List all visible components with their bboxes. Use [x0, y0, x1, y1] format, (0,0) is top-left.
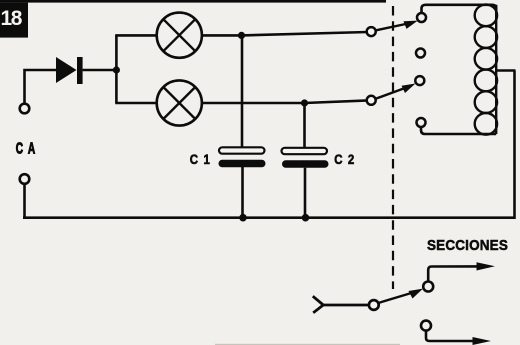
wire to lamp L2 [115, 102, 156, 105]
lamp L1 [157, 13, 202, 58]
wire diode cathode to node A [83, 69, 117, 72]
wire to lamp L1 [115, 34, 156, 37]
wire capacitor C2 to bottom bus [304, 168, 307, 218]
svg-text:C2: C2 [334, 152, 360, 167]
wire node C to capacitor C2 [303, 103, 306, 149]
wire contact 1 to transformer top [422, 5, 497, 13]
node E junction [302, 214, 310, 222]
transformer winding T1 [475, 5, 497, 135]
transformer tap wire [496, 69, 515, 72]
wire lamp L1 to node B [202, 34, 242, 37]
contact S3 lower [421, 321, 431, 331]
wire CA top terminal to diode anode [25, 70, 57, 104]
node A junction [113, 66, 120, 73]
capacitor C2 [282, 148, 329, 168]
switch S2 pivot [367, 96, 376, 105]
switch S1 blade [376, 24, 409, 31]
svg-text:CA: CA [16, 139, 40, 157]
wire fork to switch S3 pivot [322, 304, 369, 307]
switch S1 pivot [367, 27, 376, 36]
switch S3 arrowhead [409, 289, 424, 299]
figure label 18 [0, 3, 28, 38]
svg-text:18: 18 [1, 7, 23, 30]
contact 2 [416, 49, 425, 58]
contact S3 upper [423, 282, 433, 292]
wire node B to switch S1 pivot [242, 32, 369, 35]
node D junction [239, 214, 247, 222]
switch S3 input fork [313, 296, 324, 313]
wire lamp L2 to node C [202, 102, 305, 105]
switch S2 blade [376, 87, 408, 99]
capacitor C1 [219, 147, 266, 167]
diode D1 [56, 57, 83, 84]
contact 1 [417, 13, 426, 22]
wire branch column [115, 35, 118, 103]
terminal CA bottom [20, 174, 30, 184]
contact 3 [415, 76, 424, 85]
switch S3 pivot [369, 300, 379, 310]
wire node B to capacitor C1 [241, 35, 244, 148]
contact 4 [417, 118, 426, 127]
switch S2 arrowhead [402, 84, 416, 94]
node B junction [238, 32, 245, 39]
terminal CA top [20, 104, 30, 114]
wire capacitor C1 to bottom bus [241, 167, 244, 218]
lamp L2 [157, 80, 202, 125]
svg-text:SECCIONES: SECCIONES [427, 237, 508, 254]
output arrow top [428, 262, 495, 281]
svg-text:C1: C1 [190, 152, 216, 167]
wire contact 4 to transformer bottom [421, 127, 496, 134]
bottom bus wire [23, 71, 515, 218]
wire node C to switch S2 pivot [305, 100, 369, 103]
output arrow bottom [426, 331, 491, 345]
node C junction [301, 99, 308, 106]
switch S1 arrowhead [404, 21, 418, 29]
switch S3 blade [378, 293, 413, 304]
dashed gang line [392, 6, 394, 289]
